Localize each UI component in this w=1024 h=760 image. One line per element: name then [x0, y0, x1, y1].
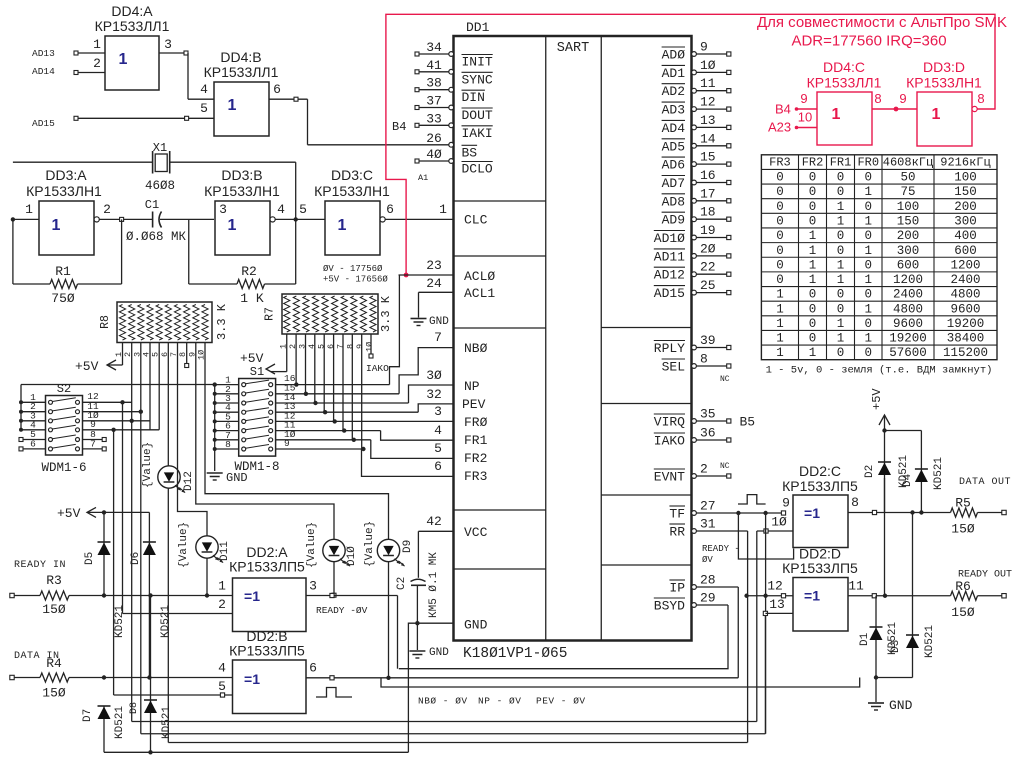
svg-text:0: 0 — [864, 317, 872, 331]
inverter DD3:C — [314, 167, 390, 255]
capacitor C2 KM5 — [396, 531, 440, 650]
svg-text:AD5: AD5 — [662, 139, 685, 154]
svg-text:0: 0 — [776, 185, 784, 199]
svg-text:400: 400 — [954, 229, 977, 243]
svg-text:R1: R1 — [55, 264, 71, 279]
svg-text:=1: =1 — [244, 671, 260, 687]
svg-text:1: 1 — [809, 244, 817, 258]
wire S1.11 to FR1 — [276, 420, 454, 441]
wire S2.9 to DD2:B.5 — [83, 419, 160, 695]
svg-text:1: 1 — [809, 346, 817, 360]
svg-text:+5V: +5V — [57, 506, 81, 521]
svg-text:2: 2 — [103, 202, 111, 217]
wire S1.13 to PEV — [276, 401, 454, 414]
svg-text:38: 38 — [426, 76, 442, 91]
svg-text:SART: SART — [557, 41, 589, 56]
svg-text:75Ø: 75Ø — [51, 291, 75, 306]
svg-text:15Ø: 15Ø — [42, 602, 66, 617]
resistor R3 — [10, 573, 233, 617]
svg-text:26: 26 — [426, 131, 442, 146]
svg-text:AD9: AD9 — [662, 213, 685, 228]
svg-text:AD15: AD15 — [654, 286, 685, 301]
svg-text:{Value}: {Value} — [306, 522, 318, 568]
svg-text:10: 10 — [798, 110, 812, 125]
svg-text:GND: GND — [464, 618, 488, 633]
pin 19 AD1Ø — [654, 223, 731, 246]
crystal X1 — [13, 141, 296, 193]
svg-text:PEV: PEV — [462, 397, 486, 412]
svg-text:VIRQ: VIRQ — [654, 415, 685, 430]
svg-text:RR: RR — [669, 525, 685, 540]
diode D7 KD521 — [82, 675, 126, 752]
pin 2Ø AD11 — [654, 241, 731, 264]
IC DD1 K1801VP1-065 body — [454, 20, 692, 662]
svg-text:0: 0 — [837, 171, 845, 185]
svg-text:0: 0 — [837, 346, 845, 360]
svg-text:0: 0 — [837, 229, 845, 243]
svg-text:INIT: INIT — [462, 55, 493, 70]
svg-text:0: 0 — [864, 229, 872, 243]
ground at S1 — [207, 471, 248, 485]
svg-text:100: 100 — [897, 200, 920, 214]
svg-text:D3: D3 — [890, 640, 902, 653]
pin 15 AD6 — [662, 150, 731, 173]
node AD14 — [32, 56, 105, 77]
svg-text:КР1533ЛН1: КР1533ЛН1 — [26, 183, 102, 199]
svg-text:B4: B4 — [392, 120, 406, 134]
svg-text:1: 1 — [228, 217, 237, 234]
svg-text:D8: D8 — [129, 702, 140, 714]
diode D8 KD521 — [129, 593, 173, 752]
pin 11 AD2 — [662, 76, 731, 99]
svg-text:R5: R5 — [955, 496, 971, 511]
svg-text:0: 0 — [776, 229, 784, 243]
op-amp gate DD4:B — [204, 49, 279, 136]
pin 35 VIRQ — [654, 407, 731, 430]
svg-text:X1: X1 — [153, 141, 167, 155]
svg-text:35: 35 — [700, 407, 716, 422]
pin 23 ACL0 — [399, 258, 496, 284]
svg-text:1: 1 — [25, 202, 33, 217]
svg-text:R7: R7 — [264, 307, 277, 321]
pin 28 IP — [669, 573, 738, 596]
svg-text:READY IN: READY IN — [14, 560, 66, 571]
svg-text:4608кГц: 4608кГц — [883, 155, 933, 169]
wire S2.10 — [83, 410, 151, 423]
wire R8 pin4 column — [149, 343, 151, 430]
svg-text:FR2: FR2 — [464, 451, 487, 466]
svg-text:DD3:B: DD3:B — [221, 167, 262, 183]
svg-text:1: 1 — [809, 229, 817, 243]
wire R8 pin10 column to LED D9 — [205, 343, 389, 540]
LED D11 — [178, 522, 231, 568]
svg-text:AD3: AD3 — [662, 103, 685, 118]
svg-text:КР1533ЛЛ1: КР1533ЛЛ1 — [204, 64, 279, 80]
svg-text:READY -: READY - — [702, 544, 740, 554]
svg-text:7: 7 — [434, 330, 442, 345]
svg-text:GND: GND — [889, 698, 913, 713]
pin 33 IAKI — [415, 111, 493, 141]
svg-text:1: 1 — [439, 202, 447, 217]
svg-text:NC: NC — [720, 462, 730, 471]
svg-text:1: 1 — [338, 217, 347, 234]
LED D9 — [364, 521, 414, 567]
svg-text:2: 2 — [700, 462, 708, 477]
wire RR to pin12 and bus — [747, 531, 749, 743]
svg-text:32: 32 — [426, 387, 442, 402]
wire R8 pin2 column — [131, 343, 133, 722]
svg-text:24: 24 — [426, 276, 442, 291]
svg-text:2400: 2400 — [950, 273, 980, 287]
svg-text:6: 6 — [273, 82, 281, 97]
svg-text:57600: 57600 — [889, 346, 927, 360]
svg-text:8: 8 — [851, 495, 859, 510]
svg-text:9600: 9600 — [893, 317, 923, 331]
svg-text:0: 0 — [809, 332, 817, 346]
svg-text:22: 22 — [700, 260, 716, 275]
resistor network R7 3.3K — [264, 294, 394, 352]
pin 18 AD9 — [662, 205, 731, 228]
pin 27 TF — [669, 499, 783, 522]
wire S1.16 to ACL0 — [276, 275, 400, 387]
svg-text:WDM1-6: WDM1-6 — [41, 461, 86, 475]
svg-text:КМ5 Ø.1 МК: КМ5 Ø.1 МК — [428, 552, 440, 618]
svg-text:=1: =1 — [804, 505, 820, 521]
pin 36 IAKO — [654, 426, 731, 449]
svg-text:1200: 1200 — [893, 273, 923, 287]
svg-text:0: 0 — [776, 258, 784, 272]
svg-text:200: 200 — [897, 229, 920, 243]
svg-text:36: 36 — [700, 426, 716, 441]
label address note — [323, 264, 388, 285]
svg-text:3: 3 — [219, 202, 227, 217]
pin 31 RR — [669, 517, 747, 540]
svg-text:1: 1 — [864, 273, 872, 287]
inverter DD3:D — [906, 59, 984, 146]
svg-text:DOUT: DOUT — [462, 108, 493, 123]
svg-text:GND: GND — [429, 316, 449, 328]
svg-text:DD3:D: DD3:D — [923, 59, 965, 75]
wire bus DD2:C.10 net — [132, 721, 757, 723]
wire GND rail D1 D3 — [874, 675, 913, 702]
pin 10 DD2:C wire — [757, 515, 793, 722]
svg-text:1: 1 — [864, 332, 872, 346]
svg-text:8: 8 — [225, 439, 231, 450]
svg-text:DD1: DD1 — [466, 20, 490, 35]
svg-text:D5: D5 — [84, 552, 96, 565]
svg-text:КР1533ЛП5: КР1533ЛП5 — [229, 643, 305, 659]
svg-text:1 - 5v, 0 - земля (т.е. ВДМ за: 1 - 5v, 0 - земля (т.е. ВДМ замкнут) — [766, 365, 993, 377]
wire DD4:B pin4 — [188, 82, 214, 99]
svg-text:19: 19 — [700, 223, 716, 238]
svg-text:150: 150 — [897, 214, 920, 228]
svg-text:25: 25 — [700, 278, 716, 293]
svg-text:C2: C2 — [396, 577, 408, 590]
svg-text:КР1533ЛЛ1: КР1533ЛЛ1 — [95, 18, 170, 34]
svg-text:AD15: AD15 — [32, 118, 55, 129]
svg-text:B5: B5 — [740, 415, 756, 430]
svg-text:1: 1 — [52, 217, 61, 234]
wire DD3:B output node — [270, 162, 325, 222]
svg-text:R4: R4 — [46, 656, 62, 671]
svg-text:DATA OUT: DATA OUT — [959, 477, 1011, 488]
pin 14 AD5 — [662, 131, 731, 154]
svg-text:1: 1 — [218, 579, 226, 594]
svg-text:9: 9 — [700, 40, 708, 55]
pin 1Ø AD1 — [662, 58, 731, 81]
pin 12 DD2:D wire — [744, 579, 793, 598]
node AD15 — [32, 101, 214, 129]
pin 9 DD2:C — [781, 496, 790, 516]
pin 25 AD15 — [654, 278, 731, 301]
svg-text:4800: 4800 — [950, 288, 980, 302]
svg-text:5: 5 — [299, 202, 307, 217]
svg-text:FR3: FR3 — [769, 155, 791, 169]
diode D5 KD521 — [84, 512, 126, 638]
svg-text:15Ø: 15Ø — [951, 522, 975, 537]
pin 12 AD3 — [662, 95, 731, 118]
svg-text:46Ø8: 46Ø8 — [145, 179, 175, 193]
ground right — [868, 698, 913, 713]
svg-text:{Value}: {Value} — [364, 521, 376, 567]
power +5V at R8 — [75, 343, 123, 375]
node AD13 — [32, 37, 105, 59]
svg-text:DIN: DIN — [462, 90, 485, 105]
svg-text:BSYD: BSYD — [654, 599, 685, 614]
wire R8 pin9 column to LED D10 — [196, 343, 334, 540]
svg-text:8: 8 — [345, 344, 355, 349]
op-amp gate DD4:C — [807, 59, 882, 145]
svg-text:0: 0 — [809, 171, 817, 185]
svg-text:9: 9 — [284, 438, 290, 449]
svg-text:FR0: FR0 — [857, 155, 879, 169]
node B4 red — [775, 91, 817, 117]
svg-text:FR1: FR1 — [830, 155, 852, 169]
resistor R6 — [951, 579, 1007, 620]
svg-text:DCLO: DCLO — [462, 162, 493, 177]
svg-text:2400: 2400 — [893, 288, 923, 302]
wire D10 cathode to DD2:A.3 — [332, 562, 336, 598]
pin 38 DIN — [415, 76, 485, 106]
svg-text:A23: A23 — [768, 120, 791, 135]
diode D1 KD521 — [859, 596, 899, 678]
wire GND column to bottom bus — [408, 623, 417, 752]
svg-text:1: 1 — [837, 258, 845, 272]
svg-text:0: 0 — [776, 273, 784, 287]
svg-text:16: 16 — [700, 168, 716, 183]
svg-text:K18Ø1VP1-Ø65: K18Ø1VP1-Ø65 — [463, 646, 567, 662]
svg-text:D9: D9 — [402, 540, 414, 553]
svg-text:0: 0 — [776, 171, 784, 185]
svg-text:41: 41 — [426, 58, 442, 73]
wire S1.14 to NP — [276, 385, 454, 405]
svg-text:AD12: AD12 — [654, 268, 685, 283]
svg-text:1: 1 — [809, 273, 817, 287]
svg-text:300: 300 — [897, 244, 920, 258]
svg-text:1: 1 — [932, 106, 941, 123]
svg-text:BS: BS — [462, 145, 478, 160]
svg-text:D1: D1 — [859, 632, 871, 646]
wire D11 cathode to READY IN line — [205, 558, 209, 598]
svg-text:1: 1 — [837, 332, 845, 346]
svg-text:+5V - 17656Ø: +5V - 17656Ø — [323, 275, 388, 285]
svg-text:EVNT: EVNT — [654, 470, 685, 485]
op-amp gate DD4:A — [95, 3, 170, 90]
svg-text:1: 1 — [864, 302, 872, 316]
svg-text:1: 1 — [864, 185, 872, 199]
wire TF elbow under DD2:C — [738, 513, 793, 559]
svg-text:9: 9 — [899, 91, 906, 106]
svg-text:Ø.Ø68 МК: Ø.Ø68 МК — [126, 230, 187, 244]
wire S1.9 to FR3 — [276, 438, 454, 476]
svg-text:0: 0 — [837, 244, 845, 258]
wire S2 common to ground bus — [19, 385, 215, 432]
svg-text:6: 6 — [309, 661, 317, 676]
wire DD4:B.6 to BS — [269, 82, 454, 145]
wire DD2:A.3 output READY-0V — [306, 579, 398, 669]
svg-text:1: 1 — [119, 51, 128, 68]
svg-text:+5V: +5V — [75, 359, 99, 374]
svg-text:4Ø: 4Ø — [426, 147, 442, 162]
node A23 red — [768, 110, 817, 135]
wire S1.12 to FR0 — [276, 410, 454, 423]
svg-text:150: 150 — [954, 185, 977, 199]
svg-text:AD8: AD8 — [662, 194, 685, 209]
svg-text:VCC: VCC — [464, 525, 488, 540]
svg-text:AD7: AD7 — [662, 176, 685, 191]
wire BSYD to DD2:A.3 — [399, 605, 728, 669]
wire bus GND bottom — [104, 750, 408, 754]
svg-text:DD4:C: DD4:C — [823, 59, 865, 75]
switch S1 WDM1-8 — [239, 365, 276, 456]
svg-text:SYNC: SYNC — [462, 72, 493, 87]
svg-text:IAKO: IAKO — [654, 434, 685, 449]
svg-text:GND: GND — [429, 647, 449, 659]
svg-text:0: 0 — [864, 258, 872, 272]
svg-text:PEV - ØV: PEV - ØV — [536, 696, 586, 707]
svg-text:NBØ - ØV: NBØ - ØV — [418, 696, 468, 707]
svg-text:AD14: AD14 — [32, 66, 55, 77]
table baud rates — [761, 155, 997, 377]
svg-text:KD521: KD521 — [160, 605, 172, 638]
svg-text:S1: S1 — [250, 365, 264, 379]
svg-text:11: 11 — [848, 579, 864, 594]
resistor R1 — [13, 219, 122, 306]
svg-text:D4: D4 — [902, 473, 914, 487]
svg-text:FR2: FR2 — [802, 155, 824, 169]
diode D4 KD521 — [902, 431, 945, 513]
pin 37 DOUT — [415, 94, 493, 124]
wire bus GND right — [381, 678, 860, 688]
pin 26 BS — [426, 131, 477, 161]
svg-text:1: 1 — [864, 244, 872, 258]
pin 42 VCC — [418, 514, 487, 540]
svg-text:4: 4 — [277, 202, 285, 217]
svg-text:4: 4 — [200, 82, 208, 97]
svg-text:0: 0 — [864, 288, 872, 302]
xor gate DD2:C — [782, 463, 858, 548]
svg-text:12: 12 — [700, 95, 716, 110]
svg-text:38400: 38400 — [947, 332, 985, 346]
svg-text:5: 5 — [434, 441, 442, 456]
wire DD4:C.8 to DD3:D.9 — [872, 91, 917, 111]
svg-text:7: 7 — [336, 344, 346, 349]
wire R8 pin6 column to LED D12 — [167, 343, 169, 466]
svg-text:1: 1 — [832, 106, 841, 123]
pin 29 BSYD — [654, 591, 728, 614]
label red note — [757, 14, 1007, 50]
svg-text:0: 0 — [809, 200, 817, 214]
pin 8 SEL — [662, 352, 731, 375]
svg-text:DD4:A: DD4:A — [111, 3, 153, 19]
resistor R5 — [951, 496, 1007, 537]
wire R8 pin8 NC stub — [185, 343, 189, 368]
svg-text:8: 8 — [977, 91, 984, 106]
wire DD2:B.6 output to IP — [306, 661, 738, 680]
pin 16 AD7 — [662, 168, 731, 191]
svg-text:KD521: KD521 — [114, 605, 126, 638]
svg-text:KD521: KD521 — [933, 457, 945, 490]
pin 2 EVNT — [654, 462, 731, 485]
svg-text:TF: TF — [669, 507, 685, 522]
svg-text:КР1533ЛН1: КР1533ЛН1 — [204, 183, 280, 199]
svg-text:FR3: FR3 — [464, 469, 487, 484]
svg-text:1Ø: 1Ø — [771, 515, 787, 530]
svg-text:5: 5 — [200, 101, 208, 116]
wire DD2:A.2 — [123, 613, 233, 615]
svg-text:КР1533ЛЛ1: КР1533ЛЛ1 — [807, 75, 882, 91]
svg-text:GND: GND — [226, 471, 248, 485]
svg-text:11: 11 — [700, 76, 716, 91]
svg-text:READY -ØV: READY -ØV — [316, 605, 368, 616]
wire S1 common column to ground — [213, 375, 239, 471]
xor gate DD2:B — [218, 628, 306, 714]
svg-text:ADØ: ADØ — [662, 48, 686, 63]
wire DD3:C.6 to CLC — [380, 202, 454, 222]
svg-text:2: 2 — [93, 56, 101, 71]
svg-text:0: 0 — [776, 200, 784, 214]
power +5V right — [870, 388, 921, 433]
svg-text:R2: R2 — [241, 264, 257, 279]
svg-text:1: 1 — [809, 258, 817, 272]
svg-text:0: 0 — [864, 346, 872, 360]
wire DD2:C.8 output DATA OUT net — [848, 495, 951, 515]
svg-text:NBØ: NBØ — [464, 341, 488, 356]
svg-text:1 K: 1 K — [240, 291, 264, 306]
svg-text:12: 12 — [767, 579, 783, 594]
svg-text:75: 75 — [900, 185, 915, 199]
svg-text:31: 31 — [700, 517, 716, 532]
svg-text:D1Ø: D1Ø — [346, 546, 358, 566]
svg-text:AD13: AD13 — [32, 48, 55, 59]
pin 17 AD8 — [662, 186, 731, 209]
svg-text:NC: NC — [720, 375, 730, 384]
svg-text:8: 8 — [700, 352, 708, 367]
svg-text:B4: B4 — [775, 102, 791, 117]
svg-text:15: 15 — [700, 150, 716, 165]
svg-text:9: 9 — [800, 91, 807, 106]
svg-text:KD521: KD521 — [924, 625, 936, 658]
svg-text:1: 1 — [776, 332, 784, 346]
svg-text:1: 1 — [837, 214, 845, 228]
svg-text:DD4:B: DD4:B — [220, 49, 261, 65]
svg-text:DD3:C: DD3:C — [331, 167, 373, 183]
wire TF branch down to DD2:D — [763, 513, 767, 734]
svg-text:600: 600 — [954, 244, 977, 258]
svg-text:1: 1 — [776, 317, 784, 331]
wire S2.11 — [83, 401, 144, 414]
svg-text:R8: R8 — [99, 315, 112, 329]
